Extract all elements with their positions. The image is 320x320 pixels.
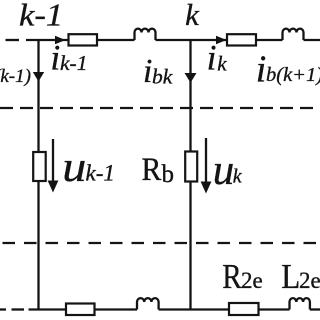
svg-text:bk: bk: [152, 65, 173, 89]
svg-text:u: u: [213, 147, 235, 194]
svg-text:k: k: [217, 51, 227, 75]
svg-text:2e: 2e: [299, 268, 320, 293]
svg-text:i: i: [207, 38, 217, 78]
svg-text:i: i: [143, 53, 152, 90]
svg-text:k-1: k-1: [19, 0, 63, 33]
svg-text:u: u: [62, 142, 86, 190]
svg-text:L: L: [281, 259, 300, 297]
svg-text:b: b: [162, 161, 175, 188]
svg-text:k-1: k-1: [60, 51, 87, 75]
svg-text:k: k: [185, 0, 200, 32]
svg-text:(k-1): (k-1): [0, 66, 31, 87]
svg-text:R: R: [222, 257, 242, 296]
svg-text:k-1: k-1: [86, 160, 115, 185]
svg-text:i: i: [50, 37, 60, 77]
svg-text:R: R: [142, 151, 162, 188]
svg-text:i: i: [256, 49, 267, 91]
svg-text:b(k+1): b(k+1): [266, 64, 320, 86]
svg-text:2e: 2e: [241, 268, 263, 293]
svg-text:k: k: [233, 165, 243, 187]
